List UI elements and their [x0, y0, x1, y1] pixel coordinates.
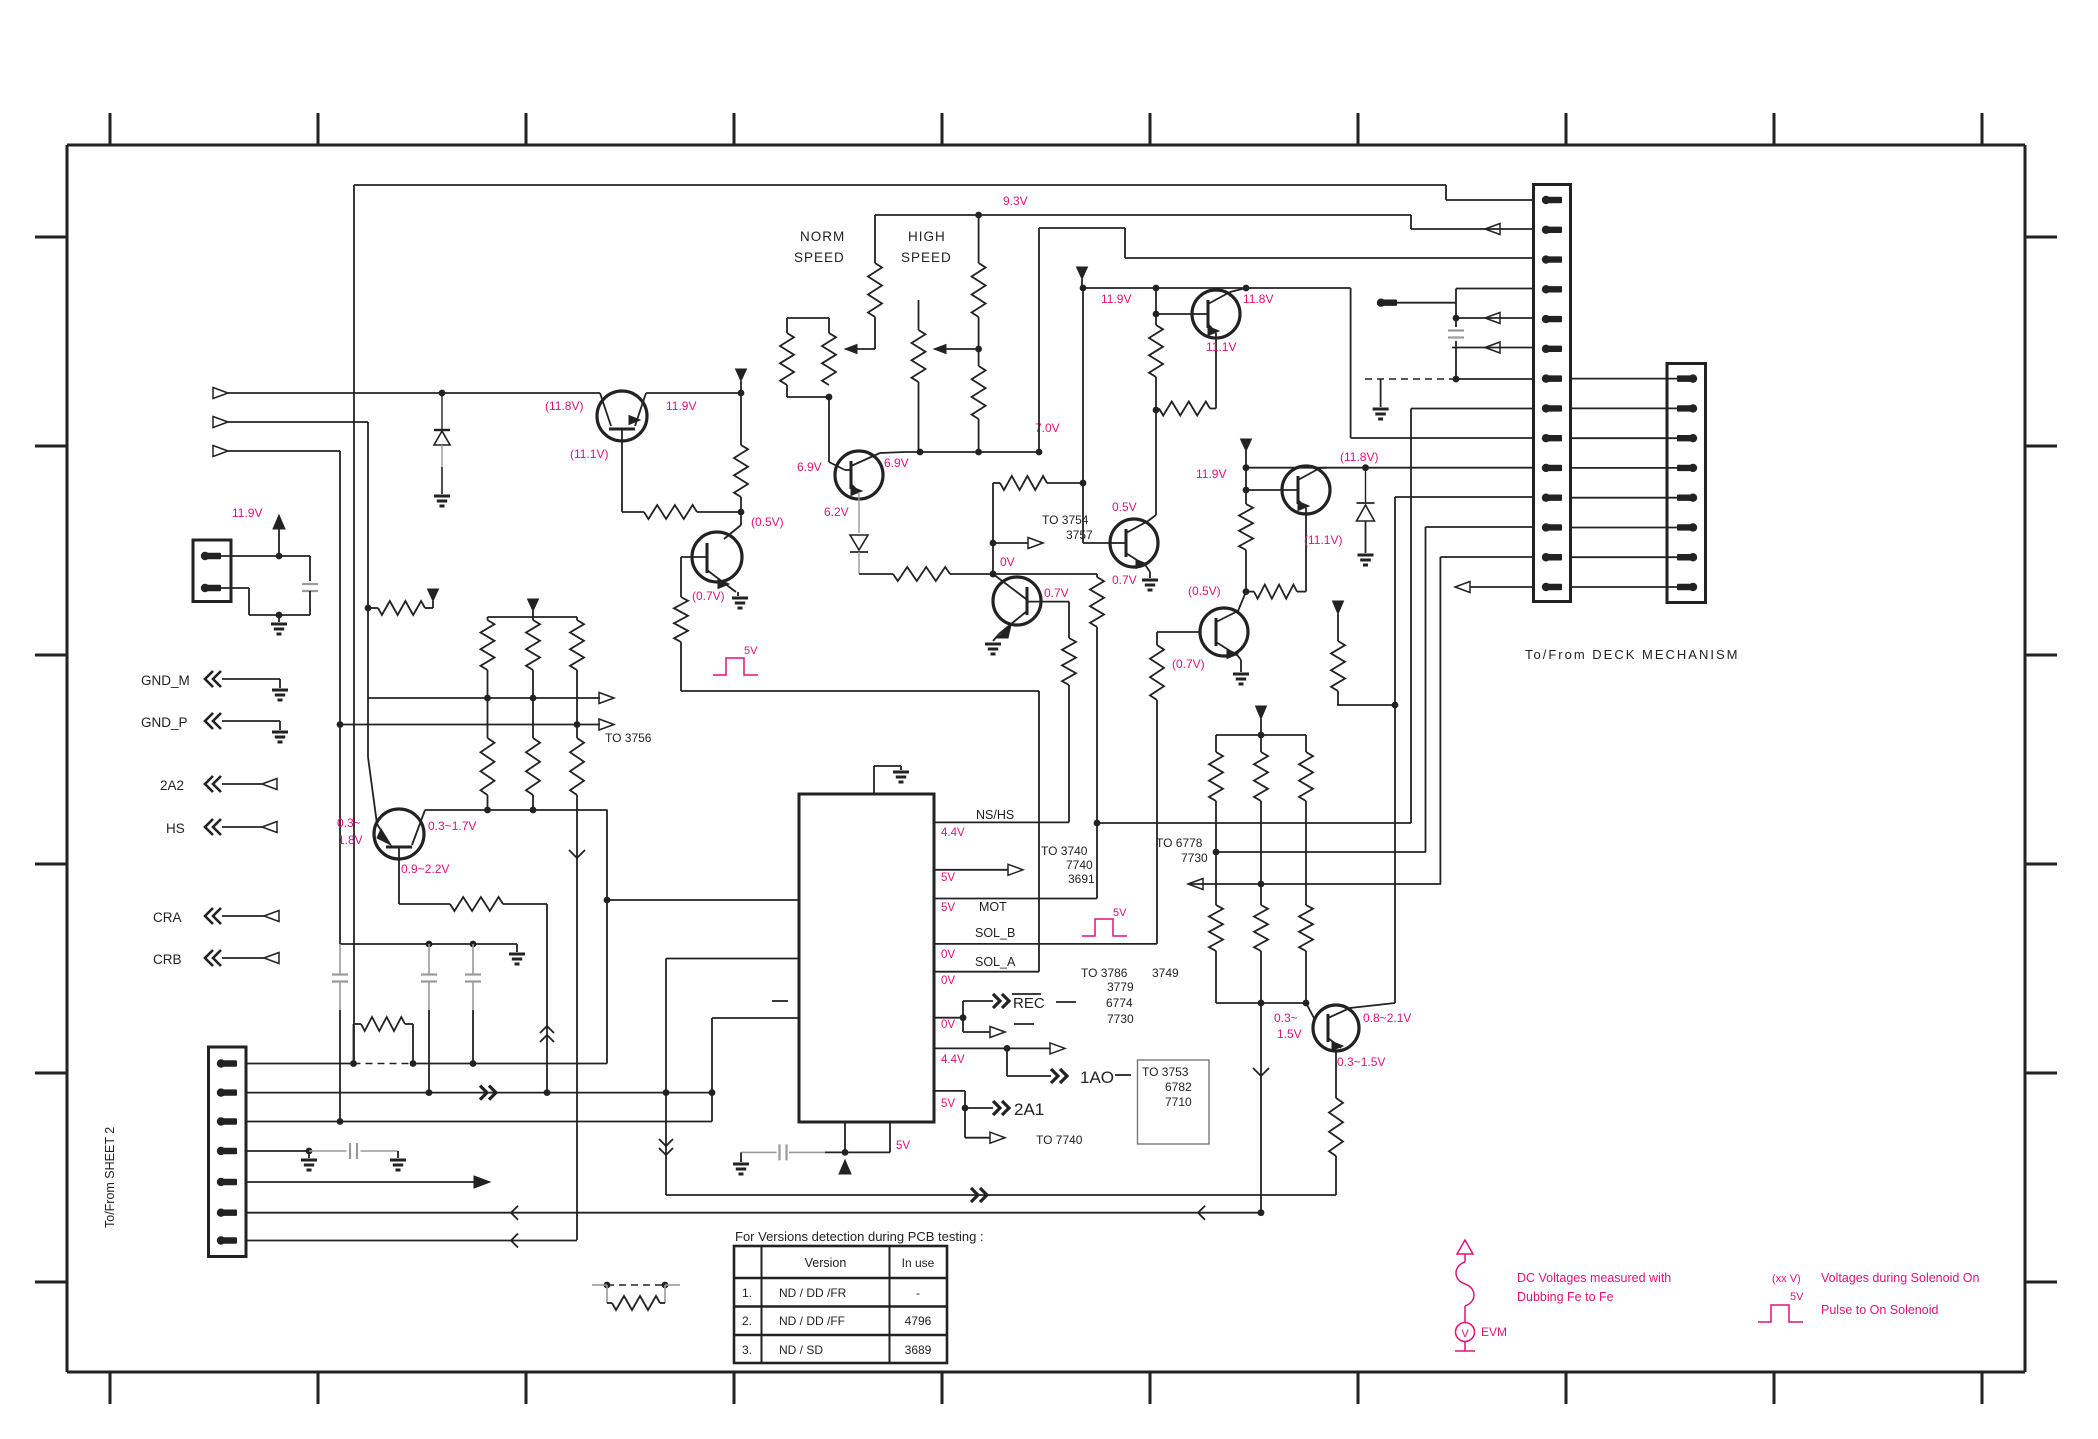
svg-text:11.1V: 11.1V [1206, 340, 1236, 354]
svg-text:To/From SHEET 2: To/From SHEET 2 [103, 1127, 117, 1228]
svg-text:(11.8V): (11.8V) [1340, 450, 1378, 464]
svg-text:For Versions detection during: For Versions detection during PCB testin… [735, 1229, 984, 1244]
svg-text:0.3~: 0.3~ [337, 816, 361, 830]
svg-text:TO 6778: TO 6778 [1156, 836, 1203, 850]
svg-text:(0.7V): (0.7V) [692, 589, 725, 603]
svg-text:11.8V: 11.8V [1243, 292, 1273, 306]
svg-text:HS: HS [166, 821, 185, 836]
svg-text:3.: 3. [742, 1343, 752, 1357]
svg-text:0V: 0V [941, 975, 955, 987]
svg-text:CRA: CRA [153, 910, 182, 925]
svg-text:2A2: 2A2 [160, 778, 184, 793]
svg-text:SOL_A: SOL_A [975, 955, 1016, 969]
svg-text:2.: 2. [742, 1314, 752, 1328]
svg-text:0.8~2.1V: 0.8~2.1V [1363, 1011, 1411, 1025]
svg-text:HIGH: HIGH [908, 229, 946, 244]
svg-text:4.4V: 4.4V [941, 1054, 965, 1066]
svg-text:5V: 5V [941, 1098, 955, 1110]
svg-text:TO 3754: TO 3754 [1042, 513, 1089, 527]
svg-text:V: V [1461, 1328, 1469, 1340]
svg-text:REC: REC [1013, 995, 1045, 1012]
svg-text:7710: 7710 [1165, 1095, 1192, 1109]
svg-text:11.9V: 11.9V [1101, 292, 1131, 306]
svg-text:(11.8V): (11.8V) [545, 399, 583, 413]
svg-text:Version: Version [805, 1256, 847, 1270]
svg-text:To/From DECK MECHANISM: To/From DECK MECHANISM [1525, 647, 1739, 662]
svg-text:2A1: 2A1 [1014, 1100, 1044, 1119]
svg-text:0V: 0V [1000, 555, 1015, 569]
svg-text:TO 3756: TO 3756 [605, 731, 652, 745]
svg-text:4.4V: 4.4V [941, 827, 965, 839]
svg-text:6.9V: 6.9V [797, 460, 822, 474]
svg-text:3689: 3689 [905, 1343, 932, 1357]
svg-text:-: - [916, 1286, 920, 1300]
svg-text:0V: 0V [941, 1019, 955, 1031]
svg-text:7730: 7730 [1181, 851, 1208, 865]
svg-text:GND_M: GND_M [141, 673, 190, 688]
svg-text:3691: 3691 [1068, 872, 1095, 886]
svg-text:0.9~2.2V: 0.9~2.2V [401, 862, 449, 876]
svg-text:(xx V): (xx V) [1772, 1273, 1801, 1285]
svg-text:0.7V: 0.7V [1112, 573, 1137, 587]
svg-text:(0.5V): (0.5V) [1188, 584, 1221, 598]
svg-text:0.7V: 0.7V [1044, 586, 1069, 600]
svg-text:11.9V: 11.9V [666, 399, 696, 413]
svg-text:6774: 6774 [1106, 996, 1133, 1010]
svg-text:6782: 6782 [1165, 1080, 1192, 1094]
svg-text:3749: 3749 [1152, 966, 1179, 980]
svg-text:7730: 7730 [1107, 1012, 1134, 1026]
svg-text:MOT: MOT [979, 900, 1007, 914]
svg-text:11.9V: 11.9V [1196, 467, 1226, 481]
svg-text:1.8V: 1.8V [338, 833, 363, 847]
svg-text:(0.7V): (0.7V) [1172, 657, 1205, 671]
svg-text:0.3~1.5V: 0.3~1.5V [1337, 1055, 1385, 1069]
svg-text:(0.5V): (0.5V) [751, 515, 784, 529]
svg-text:4796: 4796 [905, 1314, 932, 1328]
svg-text:1.: 1. [742, 1286, 752, 1300]
svg-text:NS/HS: NS/HS [976, 808, 1014, 822]
svg-text:Voltages during Solenoid On: Voltages during Solenoid On [1821, 1271, 1979, 1285]
svg-text:Pulse to On Solenoid: Pulse to On Solenoid [1821, 1303, 1938, 1317]
svg-text:TO 7740: TO 7740 [1036, 1133, 1083, 1147]
svg-text:SPEED: SPEED [794, 250, 845, 265]
svg-text:6.9V: 6.9V [884, 456, 909, 470]
svg-text:NORM: NORM [800, 229, 845, 244]
svg-text:DC Voltages measured with: DC Voltages measured with [1517, 1271, 1671, 1285]
svg-text:5V: 5V [1113, 907, 1127, 919]
svg-text:0.5V: 0.5V [1112, 500, 1137, 514]
svg-text:(11.1V): (11.1V) [570, 447, 608, 461]
svg-text:TO 3740: TO 3740 [1041, 844, 1088, 858]
svg-text:9.3V: 9.3V [1003, 194, 1028, 208]
svg-text:GND_P: GND_P [141, 715, 188, 730]
svg-text:EVM: EVM [1481, 1325, 1507, 1339]
svg-text:In use: In use [902, 1256, 935, 1270]
svg-text:TO 3786: TO 3786 [1081, 966, 1128, 980]
svg-text:7740: 7740 [1066, 858, 1093, 872]
svg-text:TO 3753: TO 3753 [1142, 1065, 1189, 1079]
svg-text:5V: 5V [1790, 1291, 1804, 1303]
svg-text:6.2V: 6.2V [824, 505, 849, 519]
svg-text:1.5V: 1.5V [1277, 1027, 1302, 1041]
svg-text:CRB: CRB [153, 952, 182, 967]
svg-text:0.3~1.7V: 0.3~1.7V [428, 819, 476, 833]
svg-text:3757: 3757 [1066, 528, 1093, 542]
svg-text:Dubbing Fe to Fe: Dubbing Fe to Fe [1517, 1290, 1614, 1304]
svg-text:ND / DD /FF: ND / DD /FF [779, 1314, 845, 1328]
svg-text:11.9V: 11.9V [232, 506, 262, 520]
svg-text:5V: 5V [744, 645, 758, 657]
svg-text:1AO: 1AO [1080, 1068, 1114, 1087]
svg-text:ND / SD: ND / SD [779, 1343, 823, 1357]
svg-text:ND / DD /FR: ND / DD /FR [779, 1286, 847, 1300]
svg-text:0V: 0V [941, 949, 955, 961]
svg-text:SOL_B: SOL_B [975, 926, 1015, 940]
svg-text:3779: 3779 [1107, 980, 1134, 994]
svg-text:SPEED: SPEED [901, 250, 952, 265]
svg-text:5V: 5V [941, 902, 955, 914]
svg-text:(11.1V): (11.1V) [1304, 533, 1342, 547]
svg-text:5V: 5V [941, 872, 955, 884]
svg-text:5V: 5V [896, 1140, 910, 1152]
svg-text:0.3~: 0.3~ [1274, 1011, 1298, 1025]
